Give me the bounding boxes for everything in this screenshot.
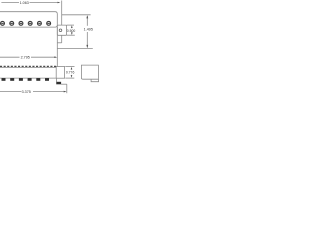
svg-text:1.063: 1.063 (20, 1, 29, 5)
svg-text:3.375: 3.375 (22, 90, 31, 94)
svg-text:0.500: 0.500 (67, 29, 76, 33)
svg-text:1.495: 1.495 (84, 27, 93, 31)
svg-text:2.795: 2.795 (21, 55, 30, 59)
svg-text:0.776: 0.776 (66, 71, 75, 75)
